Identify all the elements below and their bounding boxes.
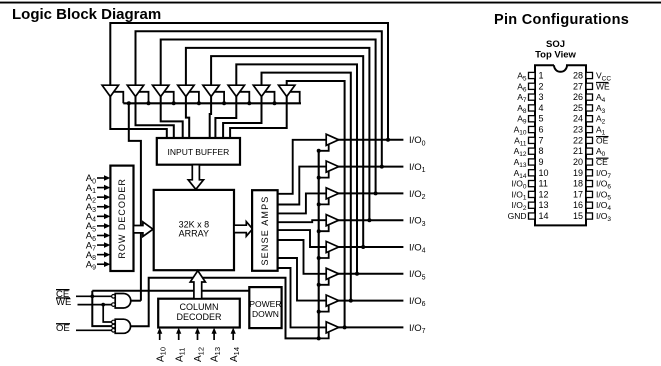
wire OE input [76, 329, 112, 331]
node junction OE rail 2 [317, 202, 321, 206]
arrow column decoder to array [190, 271, 205, 299]
output buffer O7 [326, 295, 339, 306]
wire output of buffer B8 to input buffer [230, 96, 287, 139]
wire WE input [78, 304, 112, 306]
pin 20 box [586, 159, 593, 165]
output buffer O1 [326, 134, 339, 145]
wire I/O7 line [338, 326, 404, 328]
wire I/O6 line [338, 300, 404, 302]
wire enable stub output buffer O8 [319, 331, 329, 339]
svg-text:8: 8 [539, 146, 544, 156]
pin 13 box [529, 202, 536, 208]
svg-text:10: 10 [539, 168, 549, 178]
svg-text:14: 14 [539, 211, 549, 221]
node junction enable bus 2 [147, 101, 151, 105]
wire write-data loop I/O0 (top routing) [110, 23, 388, 140]
pin 16 box [586, 202, 593, 208]
input A10 wire and arrowhead [159, 334, 161, 341]
input A2 wire and arrowhead [97, 196, 105, 198]
wire I/O2 line [338, 192, 404, 194]
svg-text:ROW DECODER: ROW DECODER [117, 178, 127, 258]
svg-text:COLUMN: COLUMN [179, 302, 218, 312]
pin 12 box [529, 191, 536, 197]
pin 24 box [586, 116, 593, 122]
wire enable stub output buffer O5 [319, 251, 329, 259]
pin 21 box [586, 148, 593, 154]
node junction loop 0 on I/O0 line [386, 138, 390, 142]
svg-text:SENSE AMPS: SENSE AMPS [260, 195, 270, 265]
buffer B4 (data-in inverter) [178, 85, 194, 96]
node junction WE branch [101, 303, 105, 307]
wire output of buffer B6 to input buffer [215, 96, 236, 139]
svg-text:7: 7 [539, 135, 544, 145]
node junction OE rail 3 [317, 229, 321, 233]
svg-text:25: 25 [573, 103, 583, 113]
pin 4 box [529, 105, 536, 111]
gate G2 body (AND, inverted inputs) [115, 319, 130, 333]
pin 23 box [586, 126, 593, 132]
wire write-data loop I/O6 (top routing) [262, 73, 351, 301]
node junction loop 1 on I/O1 line [380, 165, 384, 169]
wire enable stub output buffer O2 [319, 170, 329, 178]
svg-text:Logic Block Diagram: Logic Block Diagram [12, 6, 161, 23]
svg-text:6: 6 [539, 125, 544, 135]
wire output of buffer B7 to input buffer [223, 96, 261, 139]
gate G2 input bubble CE [112, 324, 116, 328]
input A1 wire and arrowhead [97, 187, 105, 189]
output buffer O5 [326, 241, 339, 252]
input A3 wire and arrowhead [97, 206, 105, 208]
buffer B1 (data-in inverter) [102, 85, 118, 96]
svg-text:5: 5 [539, 114, 544, 124]
output buffer O6 [326, 268, 339, 279]
block INPUT BUFFER [157, 138, 240, 165]
svg-text:28: 28 [573, 71, 583, 81]
wire output-enable rail [318, 151, 320, 339]
wire output of buffer B5 to input buffer [210, 96, 211, 139]
wire write-data loop I/O4 (top routing) [211, 56, 363, 247]
node junction enable bus 7 [273, 101, 277, 105]
svg-text:22: 22 [573, 135, 583, 145]
wire write-data loop I/O7 (top routing) [287, 81, 345, 327]
svg-text:SOJ: SOJ [546, 39, 565, 50]
input A9 wire and arrowhead [97, 263, 105, 265]
wire enable stub output buffer O1 [319, 143, 329, 151]
wire enable stub output buffer O4 [319, 224, 329, 232]
node junction enable bus tap [127, 101, 131, 105]
wire sense amp out 1 to output buffer O2 [278, 167, 327, 205]
svg-text:POWER: POWER [249, 299, 281, 309]
input A13 wire and arrowhead [213, 334, 215, 341]
svg-text:1: 1 [539, 71, 544, 81]
block COLUMN DECODER [158, 299, 240, 328]
wire write-data loop I/O2 (top routing) [161, 40, 376, 194]
wire sense amp out 6 to output buffer O7 [278, 258, 327, 301]
input A11 wire and arrowhead [178, 334, 180, 341]
svg-text:24: 24 [573, 114, 583, 124]
pin 15 box [586, 213, 593, 219]
wire I/O3 line [338, 219, 404, 221]
wire output of buffer B4 to input buffer [186, 96, 189, 139]
wire enable stub buffer B2 [138, 92, 149, 104]
input A4 wire and arrowhead [97, 215, 105, 217]
wire sense amp out 5 to output buffer O6 [278, 240, 327, 274]
svg-text:18: 18 [573, 179, 583, 189]
pin 28 box [586, 72, 593, 78]
buffer B2 (data-in inverter) [127, 85, 143, 96]
pin 18 box [586, 181, 593, 187]
wire enable bus tap down to gate G1 [129, 103, 141, 300]
svg-text:11: 11 [539, 179, 548, 189]
wire WE branch to gate G2 [103, 305, 112, 322]
node junction enable bus 6 [247, 101, 251, 105]
node junction OE rail 0 [317, 149, 321, 153]
wire CE branch to gate G2 [92, 291, 112, 326]
wire output of buffer B3 to input buffer [161, 96, 183, 139]
block ROW DECODER [110, 166, 133, 271]
node junction loop 4 on I/O4 line [361, 245, 365, 249]
arrow input buffer to array [188, 165, 203, 190]
svg-text:Pin Configurations: Pin Configurations [494, 12, 629, 28]
wire sense amp out 0 to output buffer O1 [278, 140, 327, 194]
gate G1 input bubble WE [112, 303, 116, 307]
node junction loop 7 on I/O7 line [343, 325, 347, 329]
output buffer O3 [326, 188, 339, 199]
output buffer O2 [326, 161, 339, 172]
svg-text:19: 19 [573, 168, 583, 178]
gate G1 body (AND, inverted inputs) [115, 294, 131, 309]
node junction loop 2 on I/O2 line [374, 191, 378, 195]
pin 2 box [529, 83, 536, 89]
wire enable stub buffer B7 [264, 92, 275, 104]
pin 8 box [529, 148, 536, 154]
pin 5 box [529, 116, 536, 122]
wire CE to power down [92, 290, 249, 292]
block 32K x 8 ARRAY [154, 190, 234, 270]
gate G2 input bubble WE [112, 320, 116, 324]
wire output of buffer B1 to input buffer [110, 96, 167, 139]
wire enable stub output buffer O6 [319, 277, 329, 285]
buffer B3 (data-in inverter) [153, 85, 169, 96]
wire enable stub output buffer O7 [319, 304, 329, 312]
pin 19 box [586, 170, 593, 176]
input A14 wire and arrowhead [232, 334, 234, 341]
input A6 wire and arrowhead [97, 234, 105, 236]
input A7 wire and arrowhead [97, 244, 105, 246]
wire enable stub buffer B4 [188, 92, 199, 104]
gate G1 input bubble CE [112, 295, 116, 299]
pin 26 box [586, 94, 593, 100]
svg-text:3: 3 [539, 92, 544, 102]
node junction enable bus 5 [222, 101, 226, 105]
buffer B6 (data-in inverter) [228, 85, 244, 96]
svg-text:26: 26 [573, 92, 583, 102]
wire I/O1 line [338, 166, 404, 168]
svg-text:GND: GND [508, 211, 527, 221]
svg-text:21: 21 [573, 146, 583, 156]
input A0 wire and arrowhead [97, 177, 105, 179]
pin 1 box [529, 72, 536, 78]
buffer B7 (data-in inverter) [253, 85, 269, 96]
gate G2 input bubble OE [112, 329, 116, 333]
svg-text:WE: WE [56, 297, 71, 308]
wire gate G2 output to output-enable rail [131, 278, 319, 339]
node junction OE rail 1 [317, 176, 321, 180]
svg-text:4: 4 [539, 103, 544, 113]
top border rule [0, 2, 661, 4]
svg-text:ARRAY: ARRAY [179, 229, 209, 239]
wire sense amp out 4 to output buffer O5 [278, 230, 327, 247]
svg-text:16: 16 [573, 200, 583, 210]
node junction OE rail 7 [317, 336, 321, 340]
output buffer O4 [326, 215, 339, 226]
wire write-data loop I/O5 (top routing) [236, 64, 357, 273]
svg-text:9: 9 [539, 157, 544, 167]
buffer B8 (data-in inverter) [279, 85, 295, 96]
svg-text:2: 2 [539, 81, 544, 91]
svg-text:23: 23 [573, 125, 583, 135]
wire enable stub buffer B8 [289, 92, 300, 104]
svg-text:17: 17 [573, 189, 583, 199]
wire sense amp out 2 to output buffer O3 [278, 193, 327, 213]
node junction OE rail 5 [317, 283, 321, 287]
pin 14 box [529, 213, 536, 219]
wire output of buffer B2 to input buffer [136, 96, 174, 139]
buffer B5 (data-in inverter) [203, 85, 219, 96]
wire enable stub output buffer O3 [319, 197, 329, 205]
svg-text:12: 12 [539, 189, 549, 199]
output buffer O8 [326, 322, 339, 333]
node junction loop 6 on I/O6 line [349, 299, 353, 303]
wire write-data loop I/O1 (top routing) [136, 31, 382, 166]
block POWER DOWN [249, 287, 281, 328]
wire enable stub buffer B3 [163, 92, 174, 104]
wire I/O4 line [338, 246, 404, 248]
wire enable stub buffer B1 [113, 92, 124, 104]
arrow row decoder to array [134, 222, 154, 237]
wire sense amp out 7 to output buffer O8 [278, 268, 327, 327]
pin 3 box [529, 94, 536, 100]
pin 11 box [529, 181, 536, 187]
svg-text:OE: OE [56, 323, 70, 334]
svg-text:27: 27 [573, 81, 583, 91]
input A5 wire and arrowhead [97, 225, 105, 227]
node junction CE branch [90, 294, 94, 298]
wire gate G1 output [131, 300, 141, 302]
input A12 wire and arrowhead [197, 334, 199, 341]
pin 25 box [586, 105, 593, 111]
wire enable stub buffer B5 [214, 92, 225, 104]
node junction loop 3 on I/O3 line [367, 218, 371, 222]
package outline SOJ-28 [535, 65, 586, 225]
wire WE bus (input-buffer enable) [123, 102, 301, 104]
wire write-data loop I/O3 (top routing) [186, 48, 370, 220]
wire I/O5 line [338, 273, 404, 275]
svg-text:13: 13 [539, 200, 549, 210]
block SENSE AMPS [252, 190, 278, 271]
svg-text:15: 15 [573, 211, 583, 221]
wire I/O0 line [338, 139, 404, 141]
pin 10 box [529, 170, 536, 176]
svg-text:INPUT BUFFER: INPUT BUFFER [168, 147, 230, 157]
pin 6 box [529, 126, 536, 132]
wire CE input [76, 295, 112, 297]
node junction OE rail 4 [317, 256, 321, 260]
pin 27 box [586, 83, 593, 89]
pin 22 box [586, 137, 593, 143]
svg-text:DECODER: DECODER [176, 312, 222, 322]
svg-text:Top View: Top View [535, 50, 576, 61]
arrow array to sense amps [234, 222, 253, 237]
wire sense amp out 3 to output buffer O4 [278, 220, 327, 222]
node junction OE rail 6 [317, 310, 321, 314]
pin 9 box [529, 159, 536, 165]
wire enable stub buffer B6 [239, 92, 250, 104]
node junction loop 5 on I/O5 line [355, 272, 359, 276]
pin 17 box [586, 191, 593, 197]
input A8 wire and arrowhead [97, 254, 105, 256]
node junction enable bus 4 [197, 101, 201, 105]
svg-text:20: 20 [573, 157, 583, 167]
node junction enable bus 3 [172, 101, 176, 105]
svg-text:DOWN: DOWN [252, 309, 279, 319]
pin 7 box [529, 137, 536, 143]
